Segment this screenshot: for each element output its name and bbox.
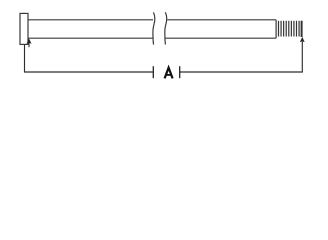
dimension tick left [152,66,154,78]
arrow under head [27,38,32,47]
dimension tick right [179,66,181,78]
dimension line right segment with riser [180,41,303,72]
thread shoulder [275,20,277,38]
dimension extension left riser [25,44,153,72]
thread end face [301,21,303,37]
shaft top line left segment [28,19,153,21]
shaft top line right segment [167,19,276,21]
arrow at thread end [300,37,305,42]
label A [165,68,173,79]
break line right [165,12,167,44]
shaft bottom line left segment [28,37,153,39]
thread crests [279,21,300,37]
axle head [20,13,28,44]
break line left [153,12,155,44]
shaft bottom line right segment [166,37,277,39]
